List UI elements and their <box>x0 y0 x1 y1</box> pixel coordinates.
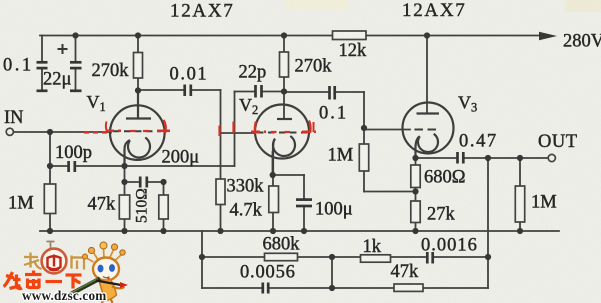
svg-text:www.dzsc.com: www.dzsc.com <box>22 288 106 303</box>
